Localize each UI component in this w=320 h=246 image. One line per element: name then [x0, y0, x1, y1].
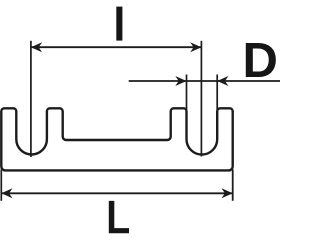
label L [109, 201, 129, 233]
part outline [1, 108, 232, 170]
dimension D extension line left [186, 75, 188, 111]
dimension L arrow right [222, 188, 233, 198]
dimension I extension line left [30, 41, 32, 157]
dimension I line [31, 46, 202, 48]
svg-text:D: D [243, 34, 278, 88]
dimension L line [1, 192, 232, 194]
dimension D extension line right [216, 75, 218, 111]
dimension D arrow right [217, 76, 228, 86]
dimension D line [129, 80, 280, 82]
dimension I arrow right [190, 42, 201, 52]
dimension L arrow left [1, 188, 12, 198]
dimension I arrow left [31, 42, 42, 52]
label I [116, 7, 122, 41]
dimension L extension line right [232, 169, 234, 200]
dimension L extension line left [0, 169, 2, 200]
dimension I extension line right [200, 41, 202, 157]
dimension D arrow left [175, 76, 186, 86]
